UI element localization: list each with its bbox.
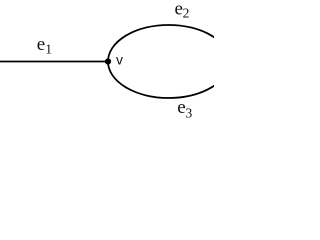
svg-text:1: 1 [45,41,52,56]
svg-text:e: e [177,97,185,118]
label e1 [37,34,52,56]
svg-text:2: 2 [183,6,190,21]
node v (vertex dot) [105,58,111,64]
wire: edge e1 segment [0,61,108,63]
svg-text:v: v [116,52,123,68]
svg-text:3: 3 [186,105,193,120]
wire: loop formed by edges e2 (top) and e3 (bottom), clipped at right edge [108,25,229,98]
label e2 [175,0,190,21]
svg-text:e: e [37,34,45,55]
label e3 [177,97,192,120]
